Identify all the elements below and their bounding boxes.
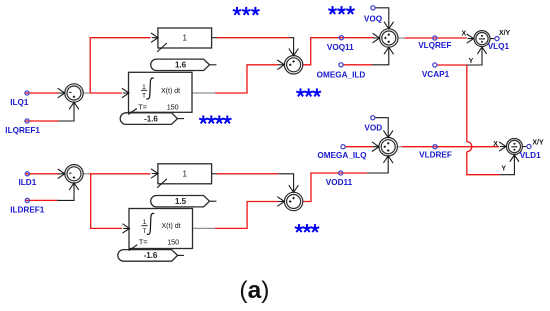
svg-text:ILQ1: ILQ1 <box>10 98 29 107</box>
svg-text:-1.6: -1.6 <box>144 114 158 123</box>
svg-text:X/Y: X/Y <box>532 139 544 146</box>
svg-text:150: 150 <box>167 102 179 111</box>
svg-text:1.5: 1.5 <box>175 197 187 206</box>
svg-text:T=: T= <box>138 102 147 111</box>
svg-text:VLQ1: VLQ1 <box>488 42 510 51</box>
svg-text:T=: T= <box>139 238 148 247</box>
svg-text:1: 1 <box>142 84 146 91</box>
svg-text:VLQREF: VLQREF <box>418 41 451 50</box>
svg-text:ILQREF1: ILQREF1 <box>5 126 40 135</box>
svg-text:X: X <box>493 141 498 148</box>
svg-text:150: 150 <box>167 238 179 247</box>
svg-text:VCAP1: VCAP1 <box>422 70 450 79</box>
svg-text:OMEGA_ILQ: OMEGA_ILQ <box>317 151 367 160</box>
svg-text:ILD1: ILD1 <box>19 178 37 187</box>
svg-text:OMEGA_ILD: OMEGA_ILD <box>317 71 366 80</box>
svg-text:VOD11: VOD11 <box>326 178 353 187</box>
svg-text:1: 1 <box>182 34 187 43</box>
svg-text:X/Y: X/Y <box>499 30 511 37</box>
svg-text:X(t) dt: X(t) dt <box>161 88 180 95</box>
svg-text:Y: Y <box>501 166 506 173</box>
svg-text:VOQ: VOQ <box>364 15 383 24</box>
svg-text:1: 1 <box>182 169 187 178</box>
svg-text:Y: Y <box>469 58 474 65</box>
svg-text:X: X <box>461 31 466 38</box>
svg-text:X(t) dt: X(t) dt <box>162 223 181 230</box>
svg-text:T: T <box>142 228 146 235</box>
svg-text:T: T <box>142 93 146 100</box>
svg-text:VOQ11: VOQ11 <box>327 43 354 52</box>
svg-text:1: 1 <box>143 219 147 226</box>
svg-text:-1.6: -1.6 <box>144 251 158 260</box>
svg-text:1.6: 1.6 <box>175 61 187 70</box>
svg-text:(a): (a) <box>239 277 269 304</box>
svg-text:VOD: VOD <box>364 124 382 133</box>
svg-text:VLD1: VLD1 <box>520 151 541 160</box>
svg-text:VLDREF: VLDREF <box>419 151 452 160</box>
svg-text:ILDREF1: ILDREF1 <box>10 205 45 214</box>
